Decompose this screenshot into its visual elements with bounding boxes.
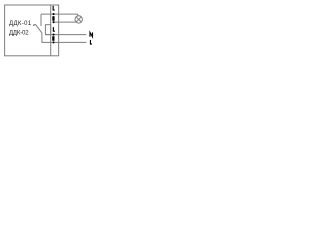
terminal label N2 xyxy=(53,36,54,41)
node dot terminal 2 xyxy=(53,21,55,23)
node dot terminal 4 xyxy=(53,41,55,43)
terminal label L2 xyxy=(53,27,55,31)
wire L out xyxy=(54,41,87,43)
net label N xyxy=(90,32,93,36)
svg-text:ДДК-01: ДДК-01 xyxy=(9,21,32,27)
svg-text:ДДК-02: ДДК-02 xyxy=(9,31,29,37)
lamp EL1 xyxy=(75,16,82,23)
switch S1 lead xyxy=(40,14,42,26)
terminal label L1 xyxy=(53,6,55,10)
net label L xyxy=(90,40,92,44)
switch S1 blade xyxy=(35,24,42,33)
wire switch to terminal 4 xyxy=(42,33,54,43)
device box ДДК xyxy=(5,5,59,56)
node dot terminal 3 xyxy=(53,34,55,36)
wire L1 to lamp xyxy=(41,14,78,16)
terminal label N1 xyxy=(53,16,54,21)
comma after ДДК-01 xyxy=(33,24,36,26)
wire N out xyxy=(45,34,86,36)
wire N1 to lamp xyxy=(54,21,76,23)
sensor block U1 xyxy=(45,25,50,35)
terminal strip divider xyxy=(50,5,52,56)
node dot terminal 1 xyxy=(53,13,55,15)
